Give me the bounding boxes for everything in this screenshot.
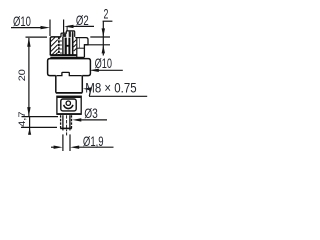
svg-text:Ø10: Ø10 [13,13,31,29]
svg-text:Ø1,9: Ø1,9 [83,133,104,149]
svg-text:Ø3: Ø3 [84,105,98,121]
svg-text:2: 2 [104,6,109,22]
svg-text:4,7: 4,7 [17,111,27,127]
svg-text:20: 20 [17,69,27,81]
svg-text:Ø2: Ø2 [76,12,89,28]
svg-text:M8 × 0.75: M8 × 0.75 [85,80,136,96]
svg-text:Ø10: Ø10 [95,55,113,71]
